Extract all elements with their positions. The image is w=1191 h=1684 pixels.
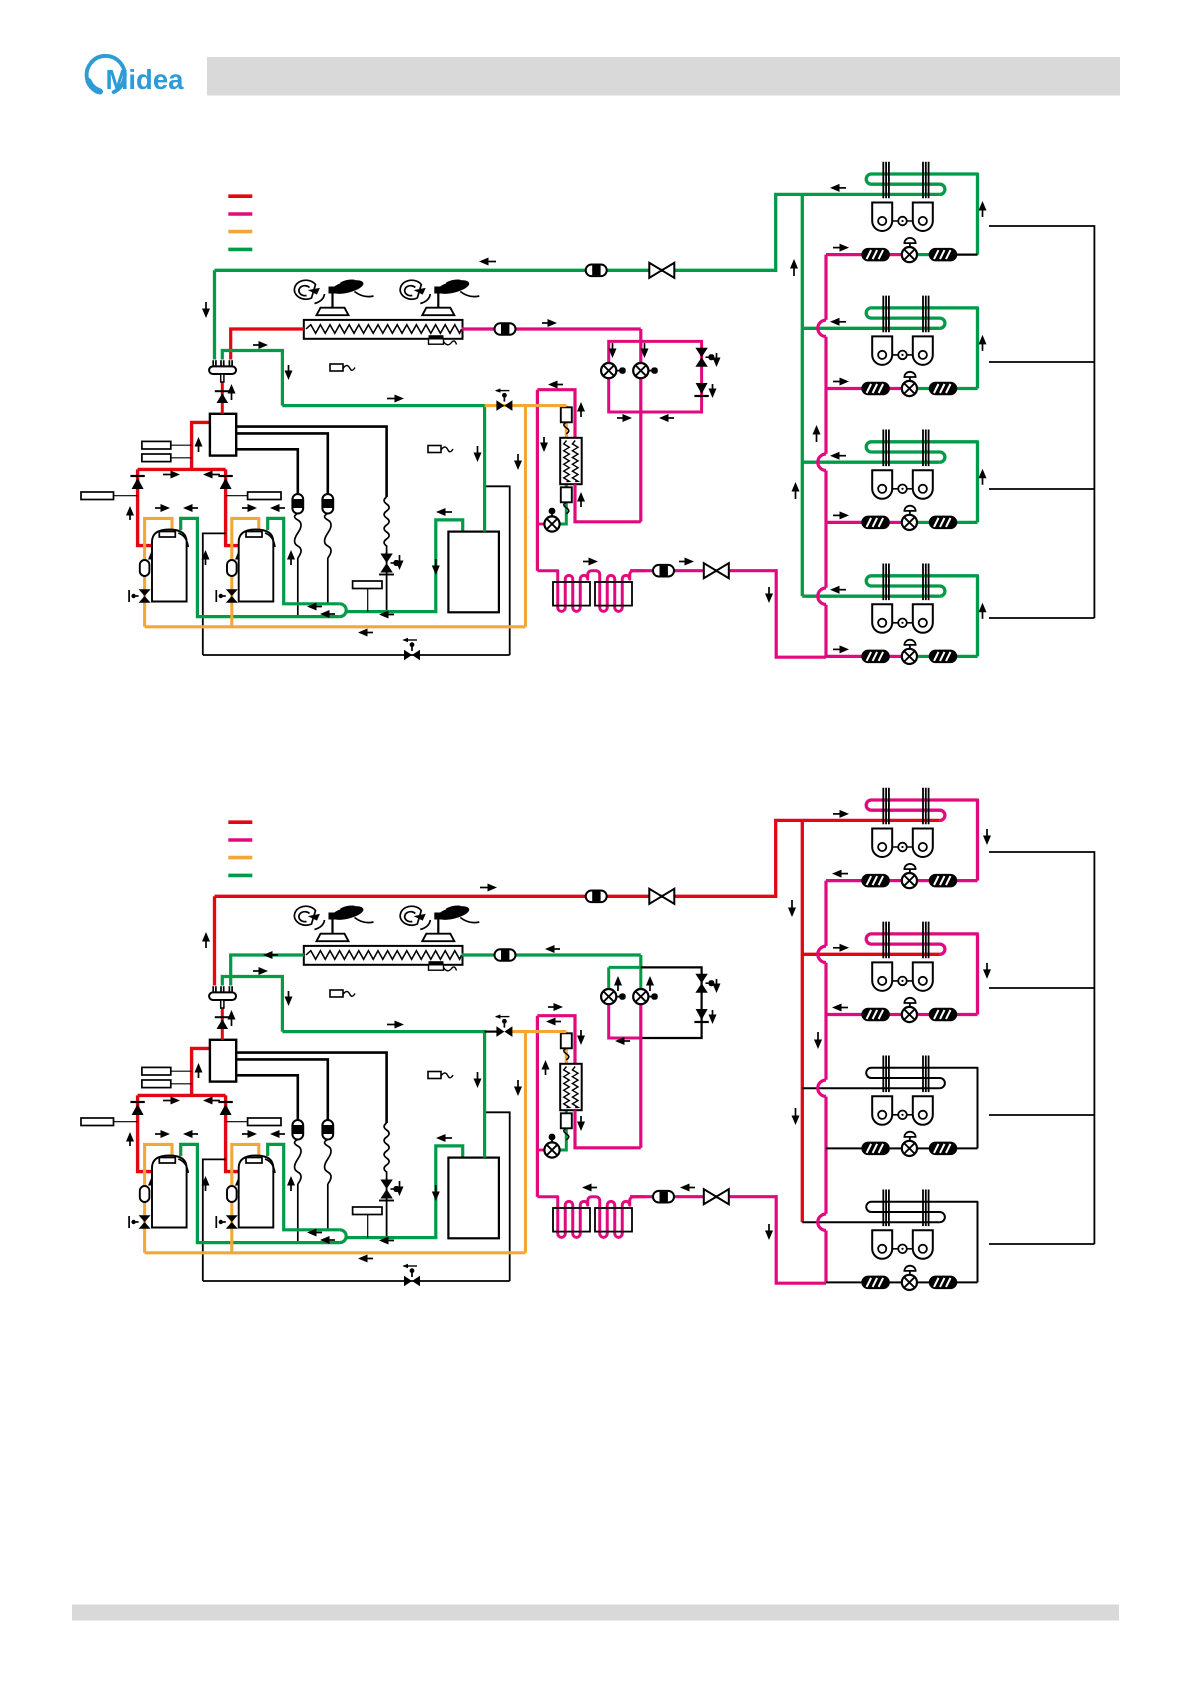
outdoor fan 1: [294, 905, 373, 942]
gas line valve inlet segment: [485, 404, 567, 407]
subcool EXV outlet green: [559, 1110, 566, 1150]
sight glass liquid line: [653, 1191, 674, 1203]
liquid main serpentine subcooler: [537, 571, 645, 612]
arrow liquid drop: [765, 1224, 773, 1240]
arrow comp1 elbow right: [155, 504, 170, 512]
indoor unit 3 EXV line left: [826, 1147, 863, 1149]
check valve distributor stem: [215, 390, 230, 392]
subcooler coil box 1: [553, 1208, 590, 1232]
bypass solenoid valve: [380, 554, 392, 573]
filter unit 2 right: [930, 1009, 957, 1021]
indoor unit 2 EXV line left: [826, 387, 863, 390]
right side connection bus: [989, 852, 1094, 1244]
subcool EXV: [544, 508, 559, 532]
sight glass main gas line: [586, 265, 607, 277]
strainer injection upper: [561, 407, 572, 434]
arrow comp1 orange up: [148, 550, 156, 565]
red discharge header: [138, 468, 226, 471]
wire drain bottom: [203, 1280, 510, 1282]
right side connection bus: [989, 226, 1094, 618]
filter unit 3 right: [930, 516, 957, 528]
electronic expansion valve unit 3: [902, 506, 917, 530]
indoor unit 1 coil serpentine: [866, 174, 977, 255]
legend green low-pressure suction line: [228, 874, 252, 878]
label box 4-way valve lower: [142, 454, 171, 462]
label box 4-way valve upper: [142, 1067, 171, 1075]
indoor unit 2 gas branch: [802, 953, 940, 956]
liquid line to service valve: [630, 1197, 826, 1284]
wire distributor stem to 4-way valve: [221, 1008, 224, 1040]
arrow main gas line: [479, 258, 496, 266]
arrow solenoid down: [713, 353, 721, 367]
liquid line service valve: [704, 1189, 729, 1204]
indoor unit 4 fans: [872, 604, 933, 633]
bypass solenoid valve: [380, 1180, 392, 1199]
indoor unit 4 gas branch: [802, 595, 940, 598]
outdoor fan 2: [400, 905, 479, 942]
subcooler coil box 2: [595, 1208, 632, 1232]
indoor unit 3 gas branch: [802, 1087, 940, 1089]
indoor unit 4 coil serpentine: [866, 576, 977, 657]
suction line separator inlet: [346, 520, 463, 612]
arrow liquid after sight glass: [679, 558, 694, 566]
arrow suction lane left lower: [320, 1236, 335, 1244]
distributor: [209, 986, 236, 1008]
indoor unit 1 coil fins: [883, 788, 928, 825]
arrow comp1 elbow left: [183, 1130, 198, 1138]
defrost sensor outdoor HX: [429, 335, 444, 339]
orange branch vertical: [524, 1032, 527, 1253]
EXV loop lower magenta: [609, 998, 641, 1038]
subcool EXV outlet green: [559, 484, 566, 524]
check valve loop: [694, 1009, 708, 1022]
EXV B outdoor: [633, 363, 658, 378]
indoor unit 1 fans: [872, 829, 933, 858]
check valve compressor 2 discharge: [218, 1102, 232, 1115]
orange injection drop: [565, 1032, 568, 1064]
indoor unit 1 EXV line right: [917, 879, 929, 882]
arrow suction lane left upper: [307, 603, 322, 611]
EXV loop feed vertical green: [639, 955, 642, 967]
arrow EXV A down: [609, 343, 617, 358]
distributor mid branch: [222, 977, 282, 1032]
arrow suction mid left: [379, 1237, 394, 1245]
indoor unit 2 fans: [872, 336, 933, 365]
indoor unit 4 coil fins: [883, 564, 928, 601]
filter unit 1 right: [930, 249, 957, 261]
suction valve compressor 2: [216, 1215, 238, 1229]
arrow check down: [709, 1010, 717, 1024]
filter unit 2 right: [930, 383, 957, 395]
indoor unit 2 coil serpentine: [866, 308, 977, 389]
liquid line service valve: [704, 563, 729, 578]
EXV loop rectangle: [609, 341, 702, 412]
indoor unit 4 EXV line right: [917, 1281, 929, 1283]
filter unit 3 right: [930, 1142, 957, 1154]
indoor unit 4 EXV line right: [917, 655, 929, 658]
arrow main riser: [202, 932, 210, 948]
indoor unit 3 EXV line right: [917, 1147, 929, 1149]
pipe sensor: [428, 1072, 453, 1079]
arrow comp2 elbow right: [242, 504, 257, 512]
wire bypass to suction: [386, 552, 388, 612]
drain service valve: [403, 638, 421, 661]
arrow unit 1 liquid out: [832, 870, 848, 878]
electronic expansion valve unit 1: [902, 238, 917, 262]
subcool liquid drop: [536, 1016, 539, 1197]
ambient sensor: [330, 990, 355, 997]
outdoor HX left pipe: [231, 329, 304, 360]
oil equalizer line compressors: [203, 533, 226, 655]
indoor liquid bus: [824, 881, 827, 1284]
Midea logo circle swoosh: [87, 56, 125, 92]
arrow liquid line serpentine: [583, 558, 598, 566]
subcool top arrows: [548, 381, 563, 389]
sight glass main gas line: [586, 891, 607, 903]
indoor unit 2 EXV line right: [917, 1013, 929, 1016]
outdoor fan 1: [294, 279, 373, 316]
hop liquid bus over unit 2 branch: [823, 320, 829, 337]
indoor unit 1 EXV line right: [917, 253, 929, 256]
indoor unit 1 gas feed: [802, 193, 940, 196]
suction valve compressor 1: [129, 1215, 151, 1229]
legend magenta high-pressure liquid line: [228, 212, 252, 216]
oil separator 1: [292, 1120, 303, 1184]
arrow comp2 suction up: [287, 1176, 295, 1191]
hop liquid bus over unit 4 branch: [823, 588, 829, 605]
arrow comp2 elbow left: [270, 1130, 285, 1138]
arrow suction inlet left: [436, 508, 452, 516]
arrow liquid bus down: [814, 1032, 822, 1049]
arrow unit 3 riser up: [979, 469, 987, 485]
electronic expansion valve unit 4: [902, 640, 917, 664]
arrow comp1 orange up: [148, 1176, 156, 1191]
arrow suction lane left lower: [320, 610, 335, 618]
arrow unit 1 gas out: [830, 184, 846, 192]
arrow discharge header right: [163, 1097, 180, 1105]
arrow main gas line: [480, 884, 497, 892]
label box suction: [353, 581, 382, 589]
sight glass HX right: [495, 949, 516, 961]
sight glass HX right: [495, 323, 516, 335]
arrow discharge header left: [203, 1097, 220, 1105]
indoor unit 4 fans: [872, 1230, 933, 1259]
arrow unit 4 gas out: [830, 586, 846, 594]
indoor unit 3 gas branch: [802, 461, 940, 464]
arrow EXV A up: [614, 976, 622, 991]
suction valve compressor 1: [129, 589, 151, 603]
arrow main riser: [202, 302, 210, 318]
outdoor HX right pipe: [462, 953, 641, 956]
compressor 1 orange suction: [145, 1144, 172, 1252]
arrow unit 1 riser up: [979, 201, 987, 217]
indoor unit 1 coil serpentine: [866, 800, 977, 881]
filter unit 1 right: [930, 875, 957, 887]
arrow orange branch down: [514, 454, 522, 470]
electronic expansion valve unit 2: [902, 372, 917, 396]
hop arc liquid bus unit 4: [818, 588, 826, 604]
arrow comp1 suction up: [202, 1176, 210, 1191]
indoor unit 2 coil fins: [883, 922, 928, 959]
hop arc liquid bus unit 2: [818, 320, 826, 336]
indoor unit 1 EXV line left: [826, 879, 863, 882]
subcool liquid drop: [536, 390, 539, 571]
accumulator compressor 2: [227, 1186, 237, 1202]
EXV loop feed vertical: [639, 329, 642, 522]
check valve compressor 2 discharge: [218, 476, 232, 489]
wire 4-way valve port C to oil separator 1: [236, 1075, 298, 1120]
main gas line: [215, 194, 803, 270]
indoor unit 4 coil serpentine: [866, 1202, 977, 1283]
compressor 1: [152, 1156, 188, 1228]
arrow branch down: [285, 991, 293, 1006]
arrow riser up: [195, 437, 203, 452]
indoor unit 2 fans: [872, 962, 933, 991]
arrow orange branch down: [514, 1080, 522, 1096]
arrow comp2 elbow right: [242, 1130, 257, 1138]
arrow unit 2 riser up: [979, 335, 987, 351]
arrow liquid after sight glass: [680, 1184, 695, 1192]
label box compressor 2: [248, 492, 281, 500]
label box compressor 1: [81, 1118, 114, 1126]
wire 4-way valve port A to bypass: [236, 427, 386, 497]
EXV B outdoor: [633, 989, 658, 1004]
arrow gas bus down 2: [792, 1108, 800, 1125]
hop liquid bus over unit 2 branch: [823, 946, 829, 963]
arrow riser up: [195, 1063, 203, 1078]
solenoid valve loop: [695, 974, 707, 993]
arrow compressor1 inlet up: [126, 506, 134, 520]
arrow unit 4 riser up: [979, 603, 987, 619]
subcooler coil box 1: [553, 582, 590, 606]
suction lane to compressor 2: [268, 518, 340, 603]
outdoor fan 2: [400, 279, 479, 316]
arrow EXV B down: [641, 343, 649, 358]
arrow comp2 orange up: [235, 1176, 243, 1191]
indoor liquid bus: [824, 255, 827, 658]
arrow distributor stem up: [228, 384, 236, 400]
strainer subcool lower: [561, 1113, 572, 1140]
indoor unit 1 gas feed: [802, 819, 940, 822]
distributor mid branch: [222, 351, 282, 406]
arrow orange header left: [358, 1255, 373, 1263]
main gas line service valve: [649, 263, 674, 278]
gas line valve inlet segment: [485, 1030, 498, 1032]
arrow comp2 elbow left: [270, 504, 285, 512]
bypass capillary coil: [384, 497, 389, 555]
strainer injection upper: [561, 1033, 572, 1060]
compressor 2 orange suction: [232, 518, 259, 626]
compressor 1: [152, 530, 188, 602]
indoor unit 3 fans: [872, 1096, 933, 1125]
arrow unit 2 liquid out: [832, 1004, 848, 1012]
electronic expansion valve unit 4: [902, 1266, 917, 1290]
subcool EXV feed: [537, 523, 545, 526]
arrow compressor1 inlet up: [126, 1132, 134, 1146]
indoor unit 2 EXV line right: [917, 387, 929, 390]
arrow unit 3 liquid in: [833, 511, 849, 519]
plate heat exchanger subcooler: [560, 438, 582, 484]
suction long horizontal: [282, 406, 484, 532]
arrow comp2 orange up: [235, 550, 243, 565]
wire 4-way valve port B to oil separator 2: [236, 1059, 328, 1120]
bypass capillary coil: [384, 1123, 389, 1181]
label box suction: [353, 1207, 382, 1215]
outdoor HX left pipe: [231, 955, 304, 986]
suction lane to compressor 2: [268, 1144, 340, 1229]
oil separator 1: [292, 494, 303, 558]
arrow loop bottom left: [615, 1037, 630, 1045]
check valve compressor 1 discharge: [130, 476, 144, 489]
indoor unit 4 EXV line left: [826, 655, 863, 658]
suction lane U-bend: [340, 1230, 346, 1243]
arrow suction long right: [387, 395, 404, 403]
liquid line to service valve: [630, 571, 826, 658]
outdoor heat exchanger: [304, 320, 463, 339]
suction lane U-bend: [340, 604, 346, 617]
main gas line service valve: [649, 889, 674, 904]
subcool magenta top line: [537, 390, 575, 438]
header gray bar: [207, 57, 1120, 96]
wire separator drain down: [485, 1112, 510, 1281]
legend green low-pressure suction line: [228, 248, 252, 252]
arrow unit 2 gas in: [833, 944, 849, 952]
compressor 2: [239, 530, 275, 602]
distributor: [209, 360, 236, 382]
EXV A outdoor: [601, 989, 626, 1004]
subcool top arrows: [548, 1003, 563, 1011]
indoor gas bus: [801, 194, 804, 596]
red discharge header: [138, 1094, 226, 1097]
arrow suction drop down: [474, 446, 482, 462]
arrow branch down: [285, 365, 293, 380]
accumulator compressor 1: [140, 560, 150, 576]
electronic expansion valve unit 3: [902, 1132, 917, 1156]
subcool EXV: [544, 1134, 559, 1158]
arrow gas bus up 2: [792, 482, 800, 499]
indoor unit 1 coil fins: [883, 162, 928, 199]
footer gray bar: [72, 1605, 1119, 1621]
arrow distributor branch right: [253, 967, 268, 975]
indoor unit 2 gas branch: [802, 327, 940, 330]
EXV loop right branch black: [641, 967, 702, 1038]
arrow HX left pipe: [263, 951, 278, 959]
check valve compressor 1 discharge: [130, 1102, 144, 1115]
wire distributor stem to 4-way valve: [221, 382, 224, 414]
wire 4-way valve port C to oil separator 1: [236, 449, 298, 494]
suction long horizontal: [282, 1032, 484, 1158]
ambient sensor: [330, 364, 355, 371]
outdoor HX right pipe: [462, 327, 641, 330]
filter unit 4 right: [930, 650, 957, 662]
legend orange low-pressure gas line: [228, 230, 252, 234]
gas line service valve black: [495, 1014, 513, 1037]
filter unit 3 left: [862, 516, 889, 528]
indoor unit 2 coil fins: [883, 296, 928, 333]
arrow suction mid left: [379, 611, 394, 619]
hop arc liquid bus unit 4: [818, 1214, 826, 1230]
four-way valve: [210, 414, 236, 456]
electronic expansion valve unit 2: [902, 998, 917, 1022]
wire separator drain down: [485, 486, 510, 655]
arrow distributor stem up: [228, 1010, 236, 1026]
arrow suction down: [432, 1185, 440, 1201]
subcool EXV feed: [537, 1149, 545, 1152]
arrow unit 1 gas in: [833, 810, 849, 818]
indoor unit 3 EXV line right: [917, 521, 929, 524]
main line riser at distributor: [213, 896, 216, 985]
indoor unit 2 EXV line left: [826, 1013, 863, 1016]
indoor unit 3 EXV line left: [826, 521, 863, 524]
subcooler coil box 2: [595, 582, 632, 606]
compressor 2 discharge pipe: [226, 469, 243, 545]
plate heat exchanger subcooler: [560, 1064, 582, 1110]
arrow suction drop down: [474, 1072, 482, 1088]
arrow gas bus down 1: [788, 900, 796, 917]
accumulator compressor 1: [140, 1186, 150, 1202]
oil separator 2: [322, 494, 333, 558]
orange injection drop: [565, 406, 568, 438]
solenoid valve loop: [695, 348, 707, 367]
filter unit 4 left: [862, 1276, 889, 1288]
filter unit 3 left: [862, 1142, 889, 1154]
hop liquid bus over unit 3 branch: [823, 1080, 829, 1097]
indoor gas bus: [801, 820, 804, 1222]
arrow unit 2 gas out: [830, 318, 846, 326]
legend magenta high-pressure liquid line: [228, 838, 252, 842]
filter unit 4 right: [930, 1276, 957, 1288]
arrow EXV B up: [646, 976, 654, 991]
check valve distributor stem: [215, 1016, 230, 1018]
hop liquid bus over unit 3 branch: [823, 454, 829, 471]
label box compressor 2: [248, 1118, 281, 1126]
red riser to 4-way valve: [192, 422, 210, 469]
gas-liquid separator: [448, 532, 499, 613]
four-way valve: [210, 1040, 236, 1082]
compressor 2 orange suction: [232, 1144, 259, 1252]
arrow unit 2 liquid in: [833, 378, 849, 386]
arrow unit 2 riser down: [983, 963, 991, 979]
arrow comp1 elbow left: [183, 504, 198, 512]
indoor unit 4 coil fins: [883, 1190, 928, 1227]
indoor unit 3 coil serpentine: [866, 442, 977, 523]
defrost sensor outdoor HX: [429, 961, 444, 965]
wire bypass to suction: [386, 1178, 388, 1238]
outdoor heat exchanger: [304, 946, 463, 965]
arrow HX right pipe: [542, 319, 557, 327]
orange suction header: [145, 625, 526, 628]
compressor 1 orange suction: [145, 518, 172, 626]
legend orange low-pressure gas line: [228, 856, 252, 860]
arrow loop bottom right: [617, 414, 632, 422]
arrow unit 1 riser down: [983, 829, 991, 845]
legend red high-pressure gas line: [228, 194, 252, 198]
liquid main serpentine subcooler: [537, 1197, 645, 1238]
pipe sensor: [428, 446, 453, 453]
EXV A outdoor: [601, 363, 626, 378]
indoor unit 3 fans: [872, 470, 933, 499]
indoor unit 4 EXV line left: [826, 1281, 863, 1283]
arrow suction long right: [387, 1021, 404, 1029]
arrow unit 1 liquid in: [833, 244, 849, 252]
accumulator compressor 2: [227, 560, 237, 576]
compressor 2: [239, 1156, 275, 1228]
arrow gas bus up 1: [790, 259, 798, 276]
indoor unit 1 fans: [872, 203, 933, 232]
hop arc liquid bus unit 3: [818, 1080, 826, 1096]
subcool HX right lower pipe: [575, 484, 641, 522]
EXV loop left branch green: [609, 966, 641, 969]
